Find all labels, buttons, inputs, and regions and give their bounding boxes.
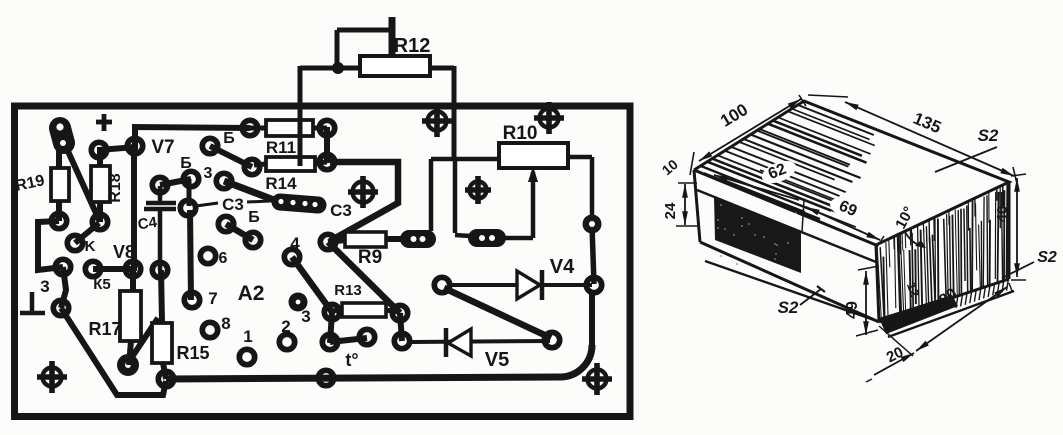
- svg-text:K: K: [85, 238, 96, 255]
- svg-text:3: 3: [301, 307, 310, 326]
- svg-text:3: 3: [204, 165, 213, 182]
- svg-text:V5: V5: [485, 349, 509, 371]
- svg-text:4: 4: [290, 234, 300, 253]
- svg-text:C3: C3: [222, 195, 244, 214]
- svg-text:S2: S2: [978, 126, 999, 145]
- svg-text:Б: Б: [180, 155, 192, 172]
- svg-text:R9: R9: [358, 247, 382, 268]
- svg-text:t°: t°: [345, 350, 358, 370]
- svg-text:6: 6: [219, 250, 228, 267]
- svg-text:40: 40: [994, 206, 1011, 223]
- svg-text:8: 8: [221, 314, 230, 333]
- svg-text:V4: V4: [550, 256, 575, 278]
- svg-text:R13: R13: [334, 282, 362, 299]
- svg-text:C3: C3: [330, 201, 352, 220]
- svg-text:S2: S2: [1037, 249, 1057, 266]
- svg-text:A2: A2: [238, 282, 265, 305]
- svg-text:R10: R10: [503, 123, 538, 144]
- svg-text:V8: V8: [113, 242, 135, 262]
- svg-text:R15: R15: [176, 343, 209, 363]
- svg-text:24: 24: [662, 202, 679, 219]
- svg-text:V7: V7: [151, 137, 174, 158]
- svg-text:R11: R11: [266, 138, 296, 157]
- svg-text:2: 2: [281, 317, 290, 336]
- svg-text:R12: R12: [394, 35, 431, 57]
- svg-text:1: 1: [243, 327, 252, 346]
- svg-text:К5: К5: [93, 276, 111, 293]
- svg-text:S2: S2: [778, 298, 799, 317]
- svg-text:3: 3: [40, 277, 49, 296]
- svg-text:49: 49: [844, 301, 861, 319]
- svg-text:R17: R17: [88, 319, 121, 339]
- svg-text:R18: R18: [107, 173, 124, 202]
- svg-text:7: 7: [208, 289, 217, 308]
- svg-text:R14: R14: [265, 174, 297, 193]
- svg-text:Б: Б: [248, 209, 260, 226]
- svg-text:Б: Б: [223, 130, 235, 147]
- svg-text:C4: C4: [137, 214, 159, 234]
